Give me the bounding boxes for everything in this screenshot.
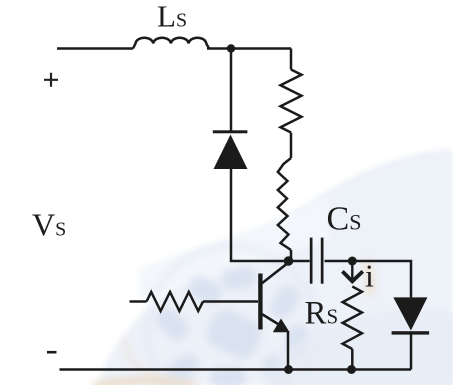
junction collector node — [284, 256, 294, 266]
wire node to capacitor — [289, 260, 310, 263]
junction top node (Ls / diode / snubber branch) — [227, 44, 235, 52]
wire base resistor to transistor — [203, 300, 258, 303]
svg-text:LS: LS — [157, 0, 187, 34]
capacitor Cs plates — [310, 238, 324, 284]
wire right branch top — [290, 49, 293, 70]
watermark bottom-right deepening — [260, 310, 453, 385]
resistor Rs — [343, 287, 362, 350]
inductor Ls — [133, 38, 209, 49]
wire right diode to rail — [410, 333, 413, 370]
wire Rs to rail — [351, 349, 354, 370]
wire base stub — [130, 300, 147, 303]
svg-text:VS: VS — [32, 207, 66, 243]
bottom rail — [60, 368, 412, 371]
label minus — [47, 351, 57, 354]
svg-text:i: i — [365, 258, 374, 294]
wire diode anode down to corner — [231, 169, 288, 261]
current arrow i — [342, 264, 362, 281]
diode D2 (right, pointing down) — [392, 297, 430, 334]
watermark tan arcs — [92, 262, 370, 385]
wire top-left — [57, 47, 133, 50]
wire coil to node — [290, 250, 293, 261]
wire top to corner — [207, 47, 291, 50]
resistor (upper right branch) — [281, 70, 302, 133]
wire node to right diode — [352, 261, 411, 297]
wire diode branch top — [230, 49, 233, 132]
junction emitter-rail node — [284, 365, 293, 374]
watermark background — [97, 149, 453, 385]
watermark blob ring — [147, 246, 317, 385]
inductor coil squiggle (lower right branch) — [278, 158, 291, 250]
label + — [44, 73, 58, 87]
junction node i (Cs / Rs / diode) — [348, 257, 357, 266]
transistor Q1 — [258, 263, 289, 333]
junction Rs-rail node — [347, 365, 356, 374]
wire capacitor to node i — [325, 260, 353, 263]
wire emitter to rail — [287, 331, 290, 370]
base resistor — [147, 292, 204, 311]
wire between resistor and coil — [290, 133, 293, 159]
diode D1 (freewheel, pointing up) — [213, 130, 248, 169]
